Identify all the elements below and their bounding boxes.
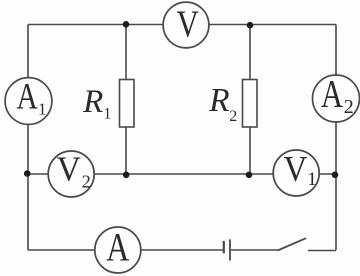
svg-text:R: R <box>208 82 229 119</box>
svg-text:A: A <box>106 224 130 269</box>
svg-text:V: V <box>284 149 308 189</box>
svg-text:1: 1 <box>307 169 317 190</box>
svg-text:A: A <box>16 76 38 117</box>
node middle right junction <box>332 172 339 179</box>
wire left rail <box>27 25 29 251</box>
svg-text:R: R <box>82 84 103 120</box>
svg-text:1: 1 <box>104 106 112 123</box>
resistor R1 <box>82 80 134 128</box>
wire switch contact to right rail <box>308 250 336 252</box>
svg-text:2: 2 <box>82 171 91 191</box>
node top R1 junction <box>123 21 130 28</box>
node middle R2 junction <box>246 172 253 179</box>
wire R2 branch <box>249 25 251 175</box>
ammeter A1 <box>5 76 52 124</box>
svg-text:1: 1 <box>38 100 47 119</box>
node top R2 junction <box>247 22 254 29</box>
svg-text:A: A <box>321 72 344 115</box>
node middle R1 junction <box>123 172 130 179</box>
svg-text:V: V <box>177 4 199 46</box>
ammeter A2 <box>313 72 360 122</box>
wire right rail <box>335 25 337 251</box>
wire middle rail <box>27 173 336 175</box>
switch lever <box>278 238 307 250</box>
wire bottom rail left (to battery) <box>28 249 223 251</box>
svg-text:V: V <box>57 150 81 189</box>
node middle left junction <box>24 170 31 177</box>
svg-text:2: 2 <box>344 96 354 118</box>
wire top rail <box>28 24 336 26</box>
resistor R2 <box>208 80 257 128</box>
wire battery to switch pivot <box>231 249 278 251</box>
voltmeter V <box>163 2 209 48</box>
ammeter A <box>95 224 141 273</box>
voltmeter V1 <box>273 149 319 196</box>
voltmeter V2 <box>48 150 94 197</box>
svg-text:2: 2 <box>229 108 237 125</box>
battery cell <box>224 239 230 260</box>
wire R1 branch <box>125 25 127 175</box>
